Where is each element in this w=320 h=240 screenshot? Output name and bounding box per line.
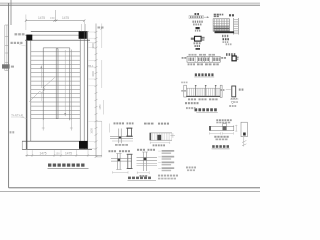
- B2 left faint text: [181, 82, 183, 84]
- D1 caption row2: [195, 45, 196, 47]
- E1 joint dark: [119, 137, 121, 139]
- F2 drop line: [243, 137, 245, 147]
- mesh heading row1a: [214, 14, 216, 16]
- section cut mark left: [42, 120, 44, 130]
- E3L end cap top: [116, 153, 121, 155]
- sq detail dark text: [226, 53, 228, 56]
- F2 rect outline: [241, 122, 247, 137]
- right dim ladder rung bottom: [96, 156, 102, 158]
- border bottom line outer: [0, 191, 260, 193]
- B2 title: [195, 108, 198, 111]
- B1 title: [195, 73, 197, 76]
- plan top dim ext left: [25, 15, 27, 31]
- bottom wall bottom line: [22, 148, 92, 150]
- mesh heading row2: [219, 14, 221, 16]
- E2 left dark block: [150, 133, 152, 140]
- stair break diagonal: [29, 77, 55, 101]
- F text below row1: [214, 136, 216, 138]
- D1 caption row1: [194, 42, 196, 44]
- G text row2: [186, 107, 188, 109]
- plan top dimension line: [26, 20, 84, 22]
- B2 heavy bar 2: [205, 85, 207, 96]
- right dim line 2: [101, 24, 103, 49]
- B2 bottom chord: [186, 96, 220, 97]
- plan top dim tick right: [83, 20, 85, 22]
- E3R vert a: [143, 152, 145, 171]
- B1 bar outline: [187, 56, 220, 62]
- F title underline: [212, 148, 230, 150]
- E2 dim ticks below: [150, 142, 170, 144]
- svg-text:1650: 1650: [100, 104, 102, 110]
- col ext line a: [80, 24, 82, 31]
- top wall bottom line: [25, 39, 90, 41]
- bottom wall left cap: [21, 141, 23, 149]
- B2 vertical bracket: [232, 86, 236, 97]
- col ext line b: [84, 24, 86, 31]
- title strip rung 4: [5, 52, 9, 54]
- title strip stamp side text: [11, 66, 14, 68]
- left wall inner line: [30, 40, 32, 141]
- E1 column line b: [120, 129, 122, 144]
- stairwell right edge b: [70, 50, 72, 121]
- svg-text:150: 150: [56, 153, 61, 156]
- B2 heavy bar 3: [215, 85, 217, 96]
- border top line inner: [0, 4, 260, 6]
- plan top dim ext right: [83, 21, 85, 32]
- E2 caption b: [158, 123, 160, 125]
- border bottom line inner: [9, 187, 260, 189]
- label TL-4 text: [11, 42, 13, 44]
- E1 caption leader: [109, 124, 111, 133]
- B2 bracket label right: [239, 89, 241, 91]
- E3 title: [128, 177, 131, 180]
- B1 bar segments: [194, 56, 196, 62]
- right dim tick x101: [100, 28, 103, 30]
- right dim aux line x103: [102, 100, 104, 115]
- right wall inner line: [79, 39, 81, 141]
- mesh light text: [226, 43, 228, 45]
- B2 stirrup lines: [187, 88, 189, 96]
- plan title underline: [48, 167, 89, 169]
- E1 caption b: [127, 122, 129, 124]
- E2 caption a: [144, 123, 147, 125]
- E3 legend extra row1: [158, 175, 160, 177]
- E1 post cap top: [126, 128, 132, 129]
- B2 bracket leader: [226, 88, 231, 90]
- bottom dim extension lines: [26, 150, 28, 156]
- title strip rung 5: [5, 62, 9, 64]
- svg-text:1600: 1600: [90, 128, 93, 134]
- right dim line 1: [95, 24, 97, 158]
- F right dim: [235, 125, 237, 132]
- right dim line 2b: [101, 60, 103, 88]
- label TL-3 text top: [15, 33, 18, 35]
- E3R vert b: [145, 152, 147, 171]
- label TL-1 underline: [11, 116, 24, 118]
- section cut mark left tick: [42, 127, 45, 129]
- title strip rung 3: [5, 44, 9, 46]
- stairwell top edge: [43, 47, 70, 49]
- plan title text: [48, 164, 51, 167]
- B1 dim text row: [189, 54, 191, 56]
- mesh faint label: [223, 41, 224, 43]
- E3L joint dark: [118, 159, 121, 162]
- plan top axis stub: [54, 10, 56, 21]
- svg-text:1475: 1475: [39, 152, 46, 156]
- F slab bottom line: [209, 129, 234, 131]
- F slab left end dark: [209, 126, 211, 131]
- bottom wall top line: [22, 140, 88, 142]
- F slab top line: [209, 125, 234, 127]
- svg-text:1475: 1475: [38, 16, 45, 20]
- E1 beam line bottom: [110, 137, 133, 139]
- E3 legend rows: [162, 150, 175, 152]
- D1 bar solid: [196, 27, 200, 29]
- D1 text row2: [193, 24, 195, 26]
- B1 title underline: [194, 76, 214, 78]
- bottom dim tick marks: [26, 154, 28, 156]
- E3L horiz b: [111, 160, 132, 162]
- B2 bracket marks below: [231, 98, 233, 100]
- B2 level symbol: [231, 102, 234, 105]
- B2 heavy bar 1: [195, 85, 197, 96]
- E3R horiz a: [137, 157, 158, 159]
- B2 bar top tick 1: [195, 85, 197, 86]
- F slab right end: [233, 125, 235, 131]
- D1 section text left: [191, 38, 194, 40]
- left wall outer line: [26, 40, 28, 149]
- E3L right post a: [126, 155, 129, 169]
- E2 beam top line: [150, 132, 173, 134]
- D1 note box: [189, 16, 203, 19]
- E3L vert a: [117, 154, 119, 170]
- E3R end cap top: [142, 151, 148, 153]
- E3R dim below: [137, 172, 149, 174]
- top wall mid line: [25, 34, 80, 36]
- E3L right post cap bottom: [127, 168, 133, 169]
- right dim line 2c: [101, 121, 103, 157]
- sq detail thick square: [232, 56, 236, 61]
- B1 right label: [221, 57, 223, 59]
- svg-text:TL-1(TL-2): TL-1(TL-2): [11, 114, 23, 117]
- H small text rows: [186, 167, 188, 169]
- B1 left label: [182, 57, 184, 59]
- B2 level text: [229, 105, 231, 107]
- right dim rotated text 2: [92, 71, 95, 77]
- stair down arrow line: [64, 50, 66, 114]
- mesh dark label: [223, 38, 225, 40]
- mesh heading row3: [229, 14, 231, 16]
- svg-text:1475: 1475: [65, 152, 72, 156]
- E2 text below: [153, 144, 155, 146]
- D1 arrow: [204, 16, 208, 18]
- title strip rung 2: [5, 36, 9, 38]
- E1 dim text below: [115, 144, 118, 146]
- bottom dim line: [26, 154, 103, 156]
- D1 section text right: [202, 37, 205, 39]
- column top-left: [26, 35, 32, 41]
- column bottom-right: [79, 141, 87, 149]
- stairwell right edge a: [69, 48, 71, 120]
- B1 text below row: [188, 63, 190, 65]
- E3 legend extra row2: [158, 178, 160, 180]
- mesh dark band: [215, 31, 235, 33]
- D1 caption small: [195, 13, 197, 15]
- right wall outer line: [87, 32, 89, 150]
- B2 bar top tick 2: [205, 85, 207, 86]
- section cut mark right tick: [70, 127, 73, 129]
- F dim bracket right: [222, 132, 233, 134]
- right dim ladder rung top: [96, 120, 102, 122]
- label TL-1 leader: [21, 117, 27, 119]
- E3R joint dark: [144, 158, 147, 161]
- column top-right: [79, 31, 87, 39]
- D1 dark blob: [196, 48, 201, 50]
- G text row1: [185, 102, 187, 104]
- E3 caption mid-b: [148, 149, 150, 151]
- stair tread lines: [31, 51, 80, 53]
- E3 title underline: [128, 179, 157, 181]
- label TL-4 leader: [19, 45, 26, 47]
- right dim rotated text 3: [90, 128, 93, 134]
- E2 right tick: [170, 134, 175, 136]
- section cut mark right: [70, 120, 72, 130]
- stairwell left edge: [42, 48, 44, 120]
- top wall outer line: [31, 31, 89, 33]
- border left inner short line: [10, 0, 12, 25]
- right dim small text top: [98, 27, 101, 29]
- E3R text below: [140, 175, 142, 177]
- F slab center dark: [223, 126, 227, 130]
- E3L right post b: [130, 155, 133, 169]
- E2 center dark block: [157, 135, 161, 140]
- E1 beam line top: [110, 136, 133, 138]
- E3L dim below: [113, 171, 129, 173]
- E3L vert b: [119, 154, 121, 170]
- mesh label text: [222, 35, 223, 37]
- E1 column line a: [118, 129, 120, 144]
- E3R horiz b: [137, 159, 158, 161]
- F title: [212, 145, 214, 148]
- ladder strip: [233, 18, 235, 35]
- title strip vline b: [6, 25, 8, 71]
- stair up arrowhead: [40, 65, 42, 69]
- stair up arrow line: [40, 67, 42, 88]
- E3 caption left-a: [109, 150, 111, 152]
- right dim tick marks: [95, 31, 98, 33]
- F text below row2: [216, 139, 218, 141]
- E1 lower line: [112, 140, 133, 142]
- E3 caption mid-a: [137, 149, 139, 151]
- E3L end cap bottom: [116, 169, 121, 171]
- border top line outer: [0, 2, 260, 4]
- B2 label left of bracket: [221, 89, 222, 91]
- E3L horiz a: [111, 158, 132, 160]
- D1 bar label: [195, 30, 196, 32]
- title strip rung 1: [5, 24, 9, 26]
- plan top dim tick left: [25, 20, 27, 22]
- D1 section fig: [195, 36, 202, 41]
- mesh heading row1b: [214, 16, 216, 18]
- B2 right end: [220, 85, 222, 97]
- title strip stamp block: [2, 64, 10, 68]
- F slab hump: [223, 124, 227, 127]
- right wall mid line: [83, 32, 85, 150]
- title strip rung 6: [5, 70, 9, 72]
- svg-text:1475: 1475: [62, 16, 69, 20]
- D1 text row1: [193, 21, 194, 23]
- F caption row2: [216, 122, 218, 124]
- B2 bar top tick 3: [215, 85, 217, 86]
- E1 post left: [126, 128, 129, 137]
- E3R horiz d: [137, 165, 158, 167]
- F2 flag mark: [242, 141, 246, 143]
- B2 title underline: [196, 111, 218, 113]
- mesh grid block: [213, 19, 229, 31]
- sq detail marks right: [237, 57, 239, 59]
- E2 beam bottom line: [150, 139, 173, 141]
- svg-text:150: 150: [50, 16, 55, 20]
- E3 caption left-b: [119, 150, 121, 152]
- right dim rotated text 1: [92, 43, 95, 49]
- svg-text:1800: 1800: [92, 43, 95, 49]
- B2 left end: [184, 85, 187, 97]
- D1 note box text: [190, 16, 191, 18]
- E3R horiz c: [137, 162, 158, 164]
- right dim aux text x100: [100, 104, 102, 110]
- stair down arrowhead: [64, 113, 66, 117]
- E3L right post cap top: [127, 154, 133, 155]
- plan top dim tick mid-b: [55, 20, 57, 22]
- B2 top line: [186, 87, 220, 89]
- F dim bracket left: [210, 132, 221, 134]
- right dim extension lines: [89, 31, 97, 33]
- E1 caption a: [114, 122, 116, 124]
- B2 dim text below: [188, 98, 190, 100]
- plan top dim tick mid-a: [54, 20, 56, 22]
- svg-text:3300: 3300: [92, 71, 95, 77]
- F2 inner dark square: [243, 133, 246, 136]
- stair divider bar: [56, 49, 58, 119]
- left margin tick text 2: [10, 131, 12, 133]
- E1 post cap bottom: [126, 136, 132, 137]
- E2 stirrups: [150, 133, 152, 140]
- F caption row1: [216, 119, 218, 121]
- E1 post right: [130, 128, 133, 137]
- title strip vline a: [4, 25, 6, 71]
- border left line: [8, 3, 10, 188]
- svg-text:TB-1: TB-1: [88, 64, 94, 68]
